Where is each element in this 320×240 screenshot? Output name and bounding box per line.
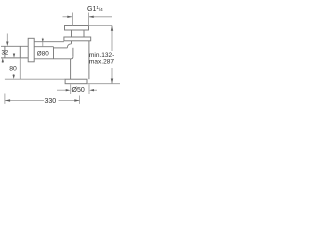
dim 330 line left part: [5, 100, 44, 102]
svg-text:max.287: max.287: [89, 58, 114, 65]
ext line nut top to minmax dim: [89, 25, 113, 27]
arrowhead 32 up: [2, 58, 4, 62]
arrowhead minmax up: [111, 26, 113, 31]
arrowhead minmax down: [111, 79, 113, 84]
arrowhead 80 upper down: [13, 54, 15, 58]
svg-text:G11/4: G11/4: [87, 5, 103, 13]
pipe left top edge A: [1, 45, 28, 47]
svg-text:Ø50: Ø50: [72, 87, 85, 94]
dim 80 upper arrow line: [13, 53, 15, 55]
pot left wall lower: [70, 59, 72, 79]
flange F1: [64, 37, 91, 41]
pot inner left wall: [72, 48, 74, 57]
svg-text:32: 32: [2, 50, 9, 56]
dim 80 lower arrow line: [13, 74, 15, 77]
arrowhead G dim left: [67, 16, 72, 18]
pot corner arc: [71, 57, 73, 59]
O80 box right: [53, 47, 55, 59]
arrowhead 80 lower down: [13, 75, 15, 79]
tube bottom edge: [34, 58, 70, 60]
pipe left end cap: [4, 46, 6, 58]
pipe P1 right wall: [83, 30, 85, 37]
nut N1 top: [65, 26, 89, 31]
pot bump arc: [67, 44, 71, 48]
background: [0, 0, 120, 120]
pot ledge line: [54, 47, 68, 49]
dim G1 1/4 arrow line left: [63, 16, 73, 18]
arrowhead 330 left: [5, 99, 10, 101]
arrowhead O50 right: [89, 89, 94, 91]
arrowhead 32 down: [6, 42, 8, 47]
arrowhead O50 left: [66, 89, 71, 91]
svg-text:330: 330: [45, 98, 57, 105]
pot right wall: [88, 41, 90, 79]
pot left wall upper: [71, 41, 73, 44]
arrowhead O80 leader down: [42, 39, 44, 42]
minmax dim line lower: [111, 68, 113, 84]
pipe left bottom edge B: [1, 57, 28, 59]
O80 leader line: [42, 38, 44, 47]
bottom flange F2: [65, 79, 87, 84]
pipe P1 left wall: [71, 30, 73, 37]
svg-text:Ø80: Ø80: [37, 51, 49, 58]
dim O50 arrow line right: [92, 89, 98, 91]
dim G1 1/4 extension line left: [72, 13, 74, 26]
dim 32 arrow line lower: [2, 60, 4, 63]
dim G1 1/4 extension line right: [88, 13, 90, 26]
dim 32 arrow line upper: [6, 34, 8, 44]
arrowhead 330 right: [74, 99, 79, 101]
dim 80 dim line: [19, 58, 21, 79]
dim 330 line right part: [59, 100, 80, 102]
dim 330 ext line left: [4, 94, 6, 104]
dim G1 1/4 leader line right: [89, 16, 112, 18]
pipe seam: [19, 46, 21, 58]
dim 330 ext line right: [79, 96, 81, 104]
rosette: [28, 38, 34, 62]
O80 box top: [34, 46, 53, 48]
svg-text:80: 80: [9, 65, 17, 72]
reference line D right: [87, 83, 120, 85]
dim O50 ext line right: [88, 84, 90, 94]
dim O50 ext line left: [70, 84, 72, 94]
tube top edge: [34, 41, 64, 43]
dim O50 arrow line left: [57, 89, 68, 91]
arrowhead G dim right: [89, 16, 94, 18]
reference line C left: [5, 78, 65, 80]
minmax dim line upper: [111, 26, 113, 52]
